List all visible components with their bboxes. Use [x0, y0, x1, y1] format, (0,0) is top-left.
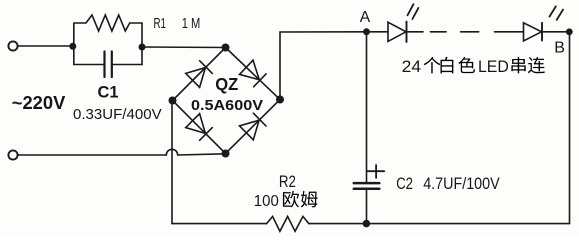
- wire: LED2 to node B corner: [542, 31, 570, 33]
- svg-text:0.33UF/400V: 0.33UF/400V: [73, 106, 162, 123]
- capacitor C2 plates: [354, 183, 380, 189]
- LED D6 (last white LED) triangle: [524, 23, 542, 41]
- svg-text:4.7UF/100V: 4.7UF/100V: [423, 175, 500, 193]
- wire: R2 to bottom-left corner: [172, 223, 267, 225]
- wire: bottom rail right (to C2 junction): [366, 223, 569, 225]
- resistor R2 (zigzag): [267, 216, 309, 231]
- wire: R1/C1 to bridge top vertex: [142, 46, 226, 49]
- resistor R1 (zigzag, top branch): [74, 15, 142, 31]
- node: C2 bottom junction: [363, 220, 371, 228]
- wire: bridge right vertex up and right to node A: [280, 32, 367, 100]
- bridge rectifier QZ diamond outline: [173, 48, 281, 154]
- label R2 value: 100 ohm: [254, 191, 318, 210]
- svg-text:B: B: [554, 39, 565, 56]
- node: bridge left vertex (DC-): [169, 97, 177, 105]
- wire: node A to LED1: [367, 31, 389, 33]
- wire: top terminal to R1C1 node: [18, 45, 73, 47]
- terminal bottom (AC neutral input): [8, 150, 17, 159]
- LED D5 (first white LED) triangle: [388, 22, 406, 41]
- LED D6 cathode bar: [541, 23, 543, 41]
- svg-text:24: 24: [402, 57, 422, 76]
- label C2 and value: [396, 175, 500, 193]
- node B corner dot: [566, 28, 573, 35]
- LED D5 light arrows: [408, 4, 419, 19]
- svg-text:A: A: [360, 9, 371, 26]
- diode D4 (bridge bottom-right edge, points to right): [240, 113, 267, 140]
- LED D5 cathode bar: [406, 22, 408, 42]
- svg-text:LED: LED: [478, 57, 509, 76]
- svg-text:100: 100: [254, 193, 279, 210]
- wire: hop to bridge bottom vertex: [178, 154, 226, 155]
- wire hop over DC- vertical: [166, 149, 177, 155]
- diode D3 (bridge left-bottom edge, points to bottom): [186, 114, 213, 141]
- wire: LED1 out (dashed continuation): [407, 31, 524, 33]
- node: bridge right vertex (DC+): [276, 96, 284, 104]
- node: bridge top vertex: [222, 44, 230, 52]
- capacitor C1 (bottom branch) wires: [74, 64, 142, 66]
- wire: node A down to C2: [366, 32, 368, 183]
- diode D2 (bridge top-right edge, points to right): [240, 60, 267, 87]
- wire: bottom terminal to hop: [18, 154, 166, 156]
- LED D6 light arrows: [550, 6, 564, 19]
- node: bridge bottom vertex: [222, 150, 230, 158]
- diode D1 (bridge left-top edge, points to top): [186, 61, 213, 88]
- wire: bridge left vertex down to bottom rail: [171, 101, 173, 224]
- svg-text:0.5A600V: 0.5A600V: [191, 98, 263, 114]
- svg-text:R2: R2: [279, 173, 296, 191]
- node: right junction of R1/C1: [139, 44, 146, 51]
- C2 polarity plus sign: [367, 165, 384, 178]
- wire: right vertical of R1/C1 block: [141, 23, 143, 65]
- label R1 value: [154, 15, 201, 32]
- wire: C2 to bottom junction: [366, 189, 368, 224]
- svg-text:C2: C2: [396, 175, 413, 193]
- terminal top (AC live input): [8, 41, 17, 50]
- svg-text:~220V: ~220V: [12, 93, 66, 113]
- node: left junction of R1/C1: [69, 43, 76, 50]
- svg-text:1 M: 1 M: [182, 15, 201, 32]
- wire: left vertical of R1/C1 block: [73, 23, 75, 65]
- label LED chain: 24 white LEDs in series: [402, 57, 545, 76]
- svg-text:C1: C1: [98, 83, 119, 102]
- svg-text:R1: R1: [154, 15, 167, 32]
- wire: right vertical rail (B down): [569, 32, 571, 224]
- node A junction dot: [363, 28, 370, 35]
- capacitor C1 plates: [105, 52, 112, 78]
- svg-text:QZ: QZ: [215, 74, 238, 94]
- wire: bottom junction to R2: [309, 223, 367, 225]
